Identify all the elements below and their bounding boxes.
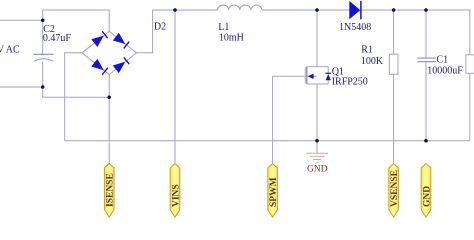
node Q1 source rail junction <box>315 139 319 143</box>
node AC top junction <box>41 19 45 23</box>
svg-text:GND: GND <box>422 186 432 207</box>
node C1 rail junction <box>424 139 428 143</box>
wire R1 bottom to VSENSE <box>393 74 395 163</box>
bridge diode top-left <box>91 31 107 47</box>
bridge diode bottom-left <box>91 59 107 75</box>
wire bridge right vertex up to DC rail <box>136 10 217 53</box>
node AC bottom junction <box>41 85 45 89</box>
node flag VSENSE <box>389 164 400 218</box>
wire C1 top lead <box>425 10 427 58</box>
bridge diode top-right <box>113 33 129 49</box>
svg-text:VINS: VINS <box>171 184 181 207</box>
svg-text:C1: C1 <box>437 55 449 66</box>
svg-text:GND: GND <box>307 165 328 175</box>
resistor R1 <box>389 54 398 74</box>
capacitor C2 <box>34 54 54 61</box>
wire load bottom lead <box>469 73 471 141</box>
capacitor C1 <box>418 58 437 62</box>
svg-text:SPWM: SPWM <box>269 177 279 207</box>
svg-text:10mH: 10mH <box>219 33 244 44</box>
wire R1 top lead <box>393 10 395 54</box>
node flag GND <box>421 164 432 218</box>
ground symbol <box>306 153 328 163</box>
wire C1 bottom lead <box>425 62 427 141</box>
wire bridge bottom to ISENSE <box>108 75 110 164</box>
wire ground rail <box>65 140 470 142</box>
wire Q1 source to ground <box>316 84 318 153</box>
resistor load at right edge <box>466 55 474 74</box>
svg-text:1N5408: 1N5408 <box>339 22 371 33</box>
node flag VINS <box>170 164 181 218</box>
node flag SPWM <box>268 164 279 218</box>
wire Q1 drain vertical <box>316 10 318 67</box>
wire SPWM to gate <box>273 76 306 163</box>
svg-text:100K: 100K <box>361 56 384 67</box>
node Q1 drain tap <box>315 8 319 12</box>
node R1 tap <box>392 8 396 12</box>
svg-text:V AC: V AC <box>0 44 20 55</box>
wire VINS vertical <box>174 10 176 164</box>
bridge rectifier D2 diamond outline <box>82 31 136 74</box>
node bridge bottom junction <box>107 95 111 99</box>
wire AC bottom lead <box>0 86 43 88</box>
svg-text:10000uF: 10000uF <box>427 66 463 77</box>
svg-text:R1: R1 <box>361 44 373 55</box>
wire C2 vertical + top segment to bridge top <box>43 10 110 54</box>
svg-text:L1: L1 <box>218 22 229 33</box>
svg-text:IRFP250: IRFP250 <box>332 76 368 87</box>
bridge diode bottom-right <box>113 57 129 73</box>
node flag ISENSE <box>104 164 115 218</box>
svg-text:0.47uF: 0.47uF <box>43 33 72 44</box>
wire DC rail L1 to output corner <box>262 10 470 55</box>
inductor L1 <box>218 5 263 10</box>
transistor Q1 <box>305 66 331 84</box>
wire C2 bottom to bridge bottom node <box>43 62 110 98</box>
svg-text:VSENSE: VSENSE <box>390 170 400 207</box>
svg-text:ISENSE: ISENSE <box>106 173 116 207</box>
node C1 tap <box>424 8 428 12</box>
diode 1N5408 <box>349 1 361 19</box>
wire bridge left vertex down to ground rail <box>65 53 82 141</box>
svg-text:D2: D2 <box>154 22 166 33</box>
wire AC top lead <box>0 19 43 21</box>
node VINS tap <box>173 8 177 12</box>
